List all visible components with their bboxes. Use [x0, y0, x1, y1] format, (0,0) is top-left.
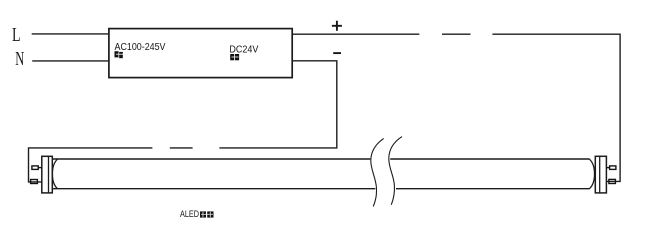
LED tube right pin lower — [609, 179, 616, 183]
wire DC plus break dash — [442, 33, 471, 35]
tube break wavy line right — [389, 137, 402, 205]
wire L input — [32, 33, 109, 35]
svg-text:ALED: ALED — [180, 209, 199, 219]
LED tube right pin upper — [610, 166, 616, 170]
polarity minus sign — [333, 52, 341, 54]
LED tube right end cap — [595, 156, 606, 193]
LED tube glass bottom line left section — [52, 188, 375, 190]
LED tube glass top line right section — [390, 158, 589, 160]
wire DC minus segment to tube left pin — [29, 148, 153, 182]
LED tube left pin upper — [32, 166, 38, 170]
wire DC plus segment 1 — [292, 33, 419, 35]
wire N input — [32, 60, 108, 62]
LED tube right glass arc — [589, 159, 594, 189]
wire DC plus segment 2 with drop to tube right pin — [492, 34, 620, 181]
svg-text:DC24V: DC24V — [229, 44, 258, 55]
power supply U1 box — [109, 29, 292, 78]
svg-text:L: L — [12, 24, 21, 46]
LED tube left end cap — [42, 156, 53, 193]
svg-text:N: N — [15, 48, 24, 70]
LED tube left cap divider — [48, 156, 50, 193]
LED tube left glass arc — [52, 159, 57, 189]
svg-text:AC100-245V: AC100-245V — [115, 42, 166, 53]
LED tube glass top line left section — [52, 158, 370, 160]
polarity plus sign — [332, 21, 342, 31]
wire DC minus from box with drop — [219, 61, 336, 148]
tube break wavy line left — [371, 139, 384, 207]
LED tube left pin lower — [31, 180, 38, 184]
LED tube glass bottom line right section — [396, 188, 590, 190]
label tube characters — [200, 211, 214, 217]
wire DC minus break dash — [170, 147, 193, 149]
label output characters — [230, 54, 239, 60]
label input characters — [115, 51, 124, 58]
LED tube right cap divider — [599, 156, 601, 193]
